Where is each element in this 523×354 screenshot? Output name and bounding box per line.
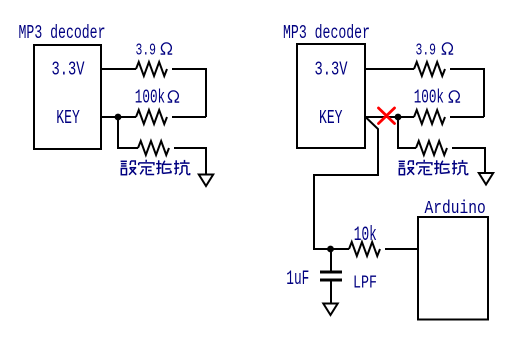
svg-text:KEY: KEY — [56, 107, 80, 129]
svg-text:1uF: 1uF — [286, 268, 309, 291]
wire setting resistor to ground (left) — [174, 148, 206, 174]
MP3 decoder box (right) U2 — [297, 44, 365, 148]
wire junction to 10k — [331, 248, 350, 250]
wire KEY pin diagonal tap down to LPF (right) — [314, 118, 378, 250]
svg-text:KEY: KEY — [319, 107, 343, 129]
ground (left) — [199, 175, 213, 187]
wire resistor to right rail (left) — [172, 69, 206, 117]
svg-text:MP3 decoder: MP3 decoder — [19, 22, 106, 44]
svg-text:10k: 10k — [354, 224, 377, 247]
svg-text:100k: 100k — [135, 87, 165, 109]
wire resistor to right rail (right) — [450, 69, 484, 117]
resistor 100k (left) — [136, 110, 167, 124]
value ohm symbol (right mid) — [449, 91, 461, 102]
wire capacitor to ground — [330, 281, 332, 303]
svg-text:3.3V: 3.3V — [52, 59, 85, 81]
junction node (LPF) — [327, 246, 334, 253]
cut mark X (red) — [379, 108, 395, 124]
resistor setting (left) — [138, 141, 169, 155]
ground (right) — [479, 173, 493, 185]
resistor 10k — [349, 242, 380, 256]
label settei-teikou (left) — [121, 160, 190, 175]
wire KEY through X to junction (right) — [366, 116, 414, 118]
wire junction down to capacitor — [330, 249, 332, 271]
wire 3.3V to resistor (left) — [102, 68, 136, 70]
ground (capacitor) — [323, 304, 337, 316]
wire junction down to setting resistor (right) — [398, 117, 416, 148]
wire KEY to resistor (left) — [102, 116, 136, 118]
label settei-teikou (right) — [399, 160, 468, 175]
junction node (left KEY) — [115, 114, 122, 121]
svg-text:3.3V: 3.3V — [315, 59, 348, 81]
svg-text:MP3 decoder: MP3 decoder — [283, 22, 370, 44]
svg-text:3.9: 3.9 — [416, 41, 437, 60]
resistor setting (right) — [416, 141, 447, 155]
wire 3.3V to resistor (right) — [366, 68, 414, 70]
svg-text:3.9: 3.9 — [136, 41, 157, 60]
value ohm symbol (left mid) — [168, 91, 180, 102]
svg-text:Arduino: Arduino — [425, 199, 486, 219]
wire 100k to right rail (left) — [172, 116, 206, 118]
svg-text:LPF: LPF — [353, 273, 377, 294]
value ohm symbol (left top) — [161, 43, 173, 54]
wire 100k to right rail (right) — [450, 116, 484, 118]
svg-text:100k: 100k — [414, 87, 444, 109]
resistor 3.9ohm (left) — [136, 62, 167, 76]
value ohm symbol (right top) — [442, 43, 454, 54]
wire 10k to Arduino — [385, 248, 417, 250]
resistor 3.9ohm (right) — [414, 62, 445, 76]
wire junction down to setting resistor (left) — [118, 117, 138, 148]
wire setting resistor to ground (right) — [452, 148, 485, 173]
MP3 decoder box (left) U1 — [34, 45, 101, 149]
capacitor 1uF plates — [320, 271, 342, 274]
resistor 100k (right) — [414, 110, 445, 124]
junction node (right KEY) — [395, 114, 402, 121]
Arduino box — [418, 217, 488, 320]
